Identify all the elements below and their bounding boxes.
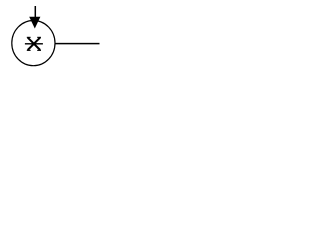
wire (vertical, top lead) <box>35 6 37 20</box>
asterisk horizontal bar <box>25 43 43 44</box>
asterisk serif cap bottom-left <box>27 50 31 51</box>
wire (horizontal, right lead) <box>55 43 100 45</box>
asterisk serif cap top-right <box>37 37 41 38</box>
lamp/source symbol: circle <box>12 20 55 65</box>
asterisk glyph: diagonal / stroke <box>28 38 40 50</box>
asterisk glyph: diagonal \ stroke <box>28 38 40 50</box>
arrowhead (points down into circle) <box>29 17 40 29</box>
asterisk serif cap bottom-right <box>37 50 41 51</box>
asterisk serif cap top-left <box>27 37 31 38</box>
